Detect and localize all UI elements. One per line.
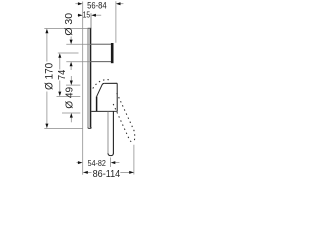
dimension Ø170: extension and dimension lines bbox=[44, 28, 88, 128]
dimension Ø30: extension lines and arrow stubs bbox=[66, 37, 91, 71]
spout stub cylinder (Ø30) bbox=[91, 44, 111, 62]
dimension 86-114: arrowheads bbox=[83, 171, 88, 174]
svg-text:Ø 170: Ø 170 bbox=[43, 63, 55, 90]
lever in raised position (dotted) bbox=[93, 80, 135, 143]
svg-text:Ø 30: Ø 30 bbox=[63, 13, 75, 36]
svg-text:74: 74 bbox=[56, 70, 68, 80]
dimension Ø30: arrowheads bbox=[70, 40, 73, 45]
handle grip body bbox=[91, 83, 117, 111]
dimension 56-84: arrowheads bbox=[78, 2, 83, 5]
dimension 15: arrowheads bbox=[78, 14, 83, 17]
spout stub end cap bbox=[111, 43, 114, 63]
handle sleeve front face bbox=[96, 97, 98, 112]
dimension Ø49: arrowheads bbox=[70, 81, 73, 86]
svg-text:56-84: 56-84 bbox=[87, 1, 107, 11]
svg-text:Ø 49: Ø 49 bbox=[63, 87, 75, 109]
dimension 86-114: extension line and dimension lines bbox=[83, 145, 134, 175]
svg-text:54-82: 54-82 bbox=[88, 158, 107, 168]
handle grip rear slant bbox=[97, 83, 105, 96]
dimension 74: arrowheads bbox=[58, 53, 61, 58]
dimension Ø49: extension lines and arrow stubs bbox=[62, 76, 80, 122]
escutcheon plate (side view, Ø170) bbox=[88, 13, 92, 128]
dimension 74: extension and dimension lines bbox=[57, 53, 81, 97]
dimension Ø170: arrowheads bbox=[45, 29, 48, 34]
wall plane extension line bbox=[82, 2, 84, 175]
dimension 54-82: extension line and arrow stubs bbox=[77, 158, 120, 168]
dimension 56-84: extension line and arrow stubs bbox=[75, 1, 123, 43]
dimension 54-82: arrowheads bbox=[78, 161, 83, 164]
svg-text:15: 15 bbox=[83, 10, 91, 19]
svg-text:86-114: 86-114 bbox=[93, 169, 121, 178]
dimension 15: arrow stubs bbox=[78, 14, 102, 16]
lever rod bbox=[107, 111, 109, 153]
